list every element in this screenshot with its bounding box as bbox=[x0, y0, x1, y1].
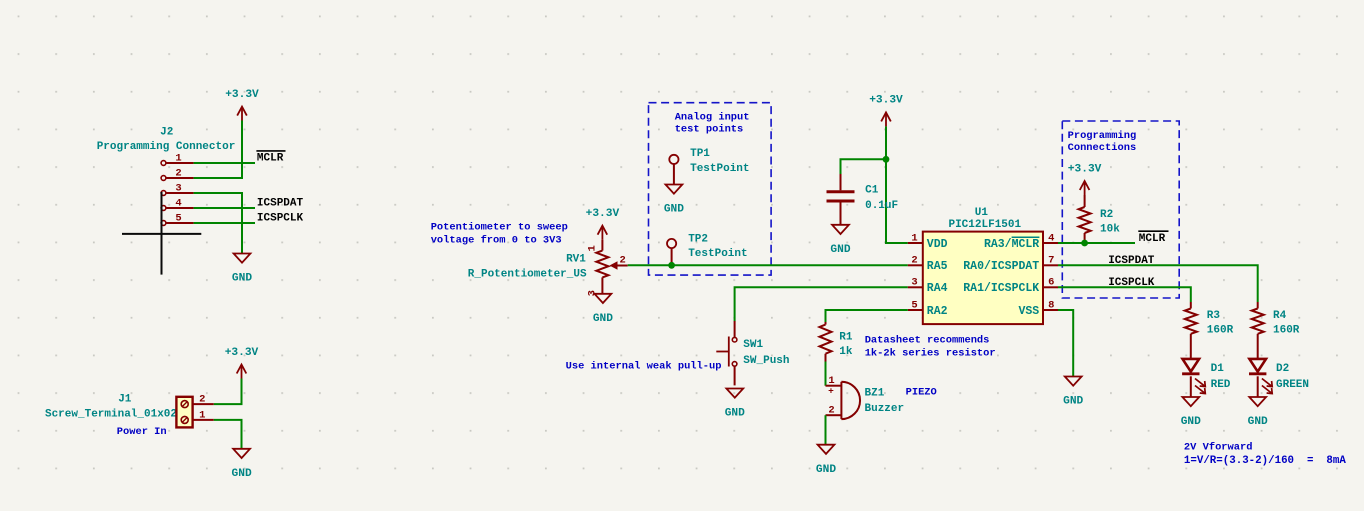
resistor R2 bbox=[1079, 207, 1091, 233]
wire U1 VSS to GND bbox=[1058, 310, 1073, 376]
wire U1 RA2 to R1 bbox=[826, 310, 908, 322]
wire to U1 VDD bbox=[886, 159, 908, 243]
svg-text:TestPoint: TestPoint bbox=[688, 248, 747, 260]
svg-text:TestPoint: TestPoint bbox=[690, 163, 749, 175]
svg-text:BZ1: BZ1 bbox=[865, 388, 885, 400]
svg-text:2: 2 bbox=[911, 255, 917, 267]
svg-text:+: + bbox=[828, 386, 834, 397]
svg-text:+3.3V: +3.3V bbox=[586, 208, 620, 220]
power +3.3V (R2) bbox=[1068, 163, 1102, 195]
svg-text:Analog input: Analog input bbox=[675, 112, 750, 124]
svg-text:U1: U1 bbox=[975, 207, 989, 219]
svg-text:R_Potentiometer_US: R_Potentiometer_US bbox=[468, 268, 587, 280]
wire R4 to D2 bbox=[1257, 334, 1259, 359]
svg-text:GND: GND bbox=[1248, 416, 1268, 428]
svg-text:1=V/R=(3.3-2)/160 = 8mA: 1=V/R=(3.3-2)/160 = 8mA bbox=[1184, 455, 1347, 467]
J2 body graphic (black cross) bbox=[122, 192, 201, 275]
ground (D2) bbox=[1248, 397, 1268, 428]
svg-text:2V Vforward: 2V Vforward bbox=[1184, 442, 1253, 454]
power +3.3V (C1/VDD) bbox=[869, 95, 903, 127]
svg-text:GND: GND bbox=[232, 468, 252, 480]
svg-text:MCLR: MCLR bbox=[257, 153, 284, 165]
wire J1 pin1 to GND bbox=[214, 420, 242, 448]
svg-text:+3.3V: +3.3V bbox=[1068, 163, 1102, 175]
junction TP2/RA5 bbox=[668, 262, 675, 269]
ground (J1) bbox=[232, 449, 252, 480]
U1 pin 2 (RA5) bbox=[908, 255, 948, 273]
wire D1 to GND bbox=[1190, 376, 1192, 397]
resistor R1 bbox=[820, 325, 832, 354]
svg-text:160R: 160R bbox=[1207, 325, 1234, 337]
resistor R3 bbox=[1185, 309, 1197, 334]
U1 pin 7 (RA0/ICSPDAT) bbox=[963, 255, 1058, 273]
wire buzzer pin2 to GND bbox=[825, 415, 827, 444]
svg-text:1: 1 bbox=[911, 232, 917, 244]
J2 pin 4 bbox=[161, 198, 194, 211]
svg-text:SW1: SW1 bbox=[743, 339, 763, 351]
svg-text:PIEZO: PIEZO bbox=[906, 387, 937, 399]
svg-text:RA1/ICSPCLK: RA1/ICSPCLK bbox=[963, 282, 1039, 295]
wire D2 to GND bbox=[1257, 376, 1259, 397]
svg-text:test points: test points bbox=[675, 124, 744, 136]
svg-text:RA4: RA4 bbox=[927, 282, 948, 295]
svg-text:2: 2 bbox=[199, 394, 205, 406]
J1 body bbox=[176, 397, 192, 428]
svg-text:Screw_Terminal_01x02: Screw_Terminal_01x02 bbox=[45, 408, 177, 420]
svg-text:1k: 1k bbox=[839, 346, 853, 358]
svg-text:Programming: Programming bbox=[1068, 130, 1137, 142]
U1 pin 8 (VSS) bbox=[1018, 299, 1058, 317]
svg-text:5: 5 bbox=[911, 299, 917, 311]
svg-text:Programming Connector: Programming Connector bbox=[97, 141, 236, 153]
svg-text:RA2: RA2 bbox=[927, 305, 948, 318]
svg-text:RA0/ICSPDAT: RA0/ICSPDAT bbox=[963, 260, 1039, 273]
svg-text:1k-2k series resistor: 1k-2k series resistor bbox=[865, 348, 996, 360]
svg-text:R2: R2 bbox=[1100, 209, 1113, 221]
svg-text:SW_Push: SW_Push bbox=[743, 355, 789, 367]
svg-text:J1: J1 bbox=[118, 393, 132, 405]
wire to C1 bbox=[841, 159, 887, 174]
svg-text:160R: 160R bbox=[1273, 325, 1300, 337]
svg-text:MCLR: MCLR bbox=[1139, 233, 1166, 245]
svg-text:GND: GND bbox=[1181, 416, 1201, 428]
J2 pin 5 bbox=[161, 213, 194, 226]
R4 top stub bbox=[1257, 302, 1259, 309]
svg-text:R1: R1 bbox=[839, 332, 853, 344]
svg-text:GND: GND bbox=[1063, 396, 1083, 408]
svg-text:+3.3V: +3.3V bbox=[869, 95, 903, 107]
svg-text:PIC12LF1501: PIC12LF1501 bbox=[948, 219, 1021, 231]
svg-text:ICSPDAT: ICSPDAT bbox=[257, 198, 304, 210]
U1 pin 6 (RA1/ICSPCLK) bbox=[963, 277, 1058, 295]
svg-text:RED: RED bbox=[1211, 379, 1231, 391]
ground (RV1) bbox=[593, 294, 613, 325]
RV1 pin1 stub bbox=[601, 240, 603, 251]
svg-text:TP2: TP2 bbox=[688, 233, 708, 245]
svg-text:0.1uF: 0.1uF bbox=[865, 200, 898, 212]
svg-text:Potentiometer to sweep: Potentiometer to sweep bbox=[431, 222, 568, 234]
svg-text:voltage from 0 to 3V3: voltage from 0 to 3V3 bbox=[431, 235, 562, 247]
J2 pin 3 bbox=[161, 183, 194, 196]
R3 top stub bbox=[1190, 302, 1192, 309]
wire U1 RA0/ICSPDAT to R4 bbox=[1058, 265, 1258, 302]
RV1 wiper arrow pin 2 bbox=[610, 255, 628, 270]
graphic dashed box: analog input test points bbox=[649, 103, 772, 275]
R1 top stub bbox=[825, 322, 827, 325]
svg-text:8: 8 bbox=[1048, 299, 1054, 311]
U1 pin 5 (RA2) bbox=[908, 299, 948, 317]
ground (BZ1) bbox=[816, 445, 836, 476]
buzzer BZ1 pin 2 bbox=[826, 404, 842, 416]
svg-text:GND: GND bbox=[593, 313, 613, 325]
svg-text:ICSPDAT: ICSPDAT bbox=[1108, 255, 1155, 267]
power +3.3V (J2) bbox=[225, 89, 259, 121]
svg-text:GND: GND bbox=[725, 408, 745, 420]
svg-text:3: 3 bbox=[911, 277, 917, 289]
wire U1 RA1/ICSPCLK to R3 bbox=[1058, 287, 1191, 302]
svg-text:Use internal weak pull-up: Use internal weak pull-up bbox=[566, 360, 722, 372]
svg-text:5: 5 bbox=[175, 213, 181, 225]
svg-text:10k: 10k bbox=[1100, 224, 1120, 236]
svg-text:1: 1 bbox=[199, 409, 205, 421]
svg-text:D2: D2 bbox=[1276, 363, 1289, 375]
svg-text:RA5: RA5 bbox=[927, 260, 948, 273]
svg-text:Buzzer: Buzzer bbox=[865, 403, 905, 415]
svg-text:RV1: RV1 bbox=[566, 254, 586, 266]
wire R1 to buzzer pin1 bbox=[825, 362, 827, 386]
svg-text:2: 2 bbox=[175, 168, 181, 180]
J2 pin 1 bbox=[161, 153, 194, 166]
wire U1 RA4 to SW1 bbox=[735, 287, 908, 321]
svg-text:R4: R4 bbox=[1273, 310, 1287, 322]
ground (D1) bbox=[1181, 397, 1201, 428]
R1 bottom stub bbox=[825, 354, 827, 362]
svg-text:ICSPCLK: ICSPCLK bbox=[1108, 277, 1155, 289]
svg-text:1: 1 bbox=[587, 245, 599, 251]
LED D1 bbox=[1182, 359, 1205, 394]
R2 bottom stub bbox=[1084, 233, 1086, 242]
svg-text:GREEN: GREEN bbox=[1276, 379, 1309, 391]
net label MCLR (U1) bbox=[1138, 231, 1168, 245]
svg-text:2: 2 bbox=[828, 404, 834, 416]
potentiometer RV1 body bbox=[596, 251, 608, 278]
svg-text:J2: J2 bbox=[160, 127, 173, 139]
capacitor C1 bbox=[827, 174, 855, 225]
svg-text:R3: R3 bbox=[1207, 310, 1221, 322]
svg-text:1: 1 bbox=[175, 153, 181, 165]
svg-text:7: 7 bbox=[1048, 255, 1054, 267]
resistor R4 bbox=[1252, 309, 1264, 334]
svg-text:TP1: TP1 bbox=[690, 148, 710, 160]
buzzer BZ1 pin 1 bbox=[826, 375, 842, 397]
buzzer BZ1 body bbox=[841, 382, 860, 419]
test point TP2 bbox=[667, 239, 676, 264]
svg-text:+3.3V: +3.3V bbox=[225, 89, 259, 101]
wire J2 pin3 to GND bbox=[194, 193, 242, 253]
svg-text:VSS: VSS bbox=[1018, 305, 1039, 318]
svg-text:Datasheet recommends: Datasheet recommends bbox=[865, 335, 990, 347]
test point TP1 bbox=[669, 155, 678, 185]
wire RV1 wiper to U1 RA5 bbox=[628, 264, 908, 266]
net label MCLR (J2) bbox=[256, 151, 285, 165]
wire J2 pin4 to ICSPDAT label bbox=[194, 207, 255, 209]
U1 pin 4 (RA3/MCLR) bbox=[984, 232, 1058, 250]
svg-text:ICSPCLK: ICSPCLK bbox=[257, 213, 304, 225]
svg-text:4: 4 bbox=[175, 198, 181, 210]
ground (J2) bbox=[232, 254, 252, 285]
ground (VSS) bbox=[1063, 377, 1083, 408]
J2 pin 2 bbox=[161, 168, 194, 181]
svg-text:C1: C1 bbox=[865, 185, 879, 197]
svg-text:3: 3 bbox=[175, 183, 181, 195]
ground (TP1) bbox=[664, 185, 684, 216]
wire J1 pin2 to +3.3V bbox=[214, 379, 242, 405]
switch SW1 bbox=[716, 321, 737, 385]
svg-text:4: 4 bbox=[1048, 232, 1054, 244]
svg-text:6: 6 bbox=[1048, 277, 1054, 289]
svg-text:2: 2 bbox=[620, 255, 626, 267]
U1 pin 3 (RA4) bbox=[908, 277, 948, 295]
graphic dashed box: programming connections bbox=[1062, 121, 1179, 298]
wire J2 pin5 to ICSPCLK label bbox=[194, 222, 255, 224]
svg-text:RA3/MCLR: RA3/MCLR bbox=[984, 238, 1039, 251]
svg-text:Connections: Connections bbox=[1068, 142, 1137, 154]
svg-text:Power In: Power In bbox=[117, 426, 167, 438]
J1 screw pin 2 bbox=[181, 394, 214, 408]
svg-text:+3.3V: +3.3V bbox=[225, 347, 259, 359]
wire J2 pin1 to MCLR label bbox=[194, 162, 255, 164]
svg-text:GND: GND bbox=[664, 204, 684, 216]
RV1 pin3 stub bbox=[601, 277, 603, 293]
wire +3.3V to J2 pin2 bbox=[194, 121, 242, 179]
junction C1/VDD bbox=[883, 156, 890, 163]
svg-text:D1: D1 bbox=[1211, 363, 1225, 375]
power +3.3V (J1) bbox=[225, 347, 259, 379]
svg-text:GND: GND bbox=[816, 464, 836, 476]
wire R3 to D1 bbox=[1190, 334, 1192, 359]
power +3.3V (RV1) bbox=[586, 208, 620, 240]
ground (C1) bbox=[830, 225, 850, 256]
LED D2 bbox=[1249, 359, 1272, 394]
svg-text:GND: GND bbox=[830, 244, 850, 256]
junction R2/MCLR bbox=[1081, 240, 1088, 247]
U1 pin 1 (VDD) bbox=[908, 232, 948, 250]
ground (SW1) bbox=[725, 389, 745, 420]
wire U1 RA3 to MCLR label bbox=[1058, 242, 1135, 244]
svg-text:GND: GND bbox=[232, 273, 252, 285]
op-amp U1 body bbox=[923, 232, 1043, 325]
J1 screw pin 1 bbox=[181, 409, 214, 423]
svg-text:VDD: VDD bbox=[927, 238, 948, 251]
R2 top stub bbox=[1084, 195, 1086, 207]
wire +3.3V down bbox=[885, 126, 887, 159]
